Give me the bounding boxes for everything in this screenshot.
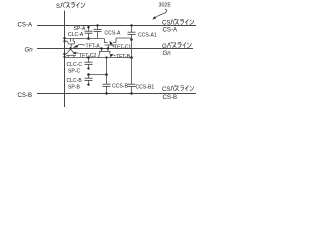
svg-text:SP-B: SP-B [68, 84, 80, 90]
wire vertical link A (CS coupling chain) [131, 40, 133, 58]
label CCS-B1 [136, 85, 155, 91]
capacitor CCS-A1 [128, 24, 136, 39]
wire SP-A node [65, 38, 105, 40]
wire vertical to CCS-B [106, 58, 108, 85]
junction chain / TFT-B drain wire [130, 56, 133, 59]
label TFT-B with leader [110, 54, 131, 60]
label CS bus line (right bottom) [162, 85, 194, 93]
label CS-A (left) [18, 22, 33, 29]
label CCS-A1 [138, 32, 157, 38]
transistor TFT-B (below gate line) [99, 49, 112, 58]
svg-text:CLC-B: CLC-B [67, 78, 83, 84]
capacitor CCS-B [103, 84, 111, 95]
svg-text:CS-B: CS-B [163, 94, 178, 101]
label Gn (left) [25, 47, 34, 54]
transistor TFT-A [65, 39, 75, 49]
label CLC-B [67, 78, 83, 84]
wire SP-C node (TFT-C2 to TFT-B) [65, 57, 132, 59]
capacitor CLC-A [85, 28, 93, 39]
G bus line Gn [37, 48, 193, 50]
label CS bus line (right top) [162, 19, 194, 27]
label S bus line [56, 2, 85, 10]
svg-text:CS-B: CS-B [18, 92, 33, 99]
junction CLC-B top [87, 73, 90, 76]
junction CLC-A on SP-A wire [87, 37, 90, 40]
junction TFT-C2 gate [69, 47, 71, 49]
label CS-B (right) [163, 94, 178, 101]
junction TFT-B gate 1 [100, 47, 102, 49]
svg-text:302E: 302E [159, 3, 172, 9]
label TFT-C1 with leader [109, 41, 131, 51]
capacitor CCS-A [94, 24, 102, 38]
node SP-A (dot) [87, 26, 89, 28]
junction CLC-B wire [105, 73, 108, 76]
transistor TFT-C1 [105, 38, 117, 49]
svg-text:CCS-A: CCS-A [105, 30, 121, 36]
capacitor CLC-B [85, 75, 93, 84]
label CLC-A [68, 32, 84, 38]
svg-text:CS-A: CS-A [18, 22, 33, 29]
label SP-A [74, 26, 86, 32]
transistor TFT-C2 (below gate line) [66, 49, 76, 58]
svg-text:S: S [56, 3, 60, 10]
label TFT-C2 with leader arrow [72, 52, 96, 59]
junction SP-B wire / vertical [105, 56, 107, 58]
wire vertical link B (to CCS-B1) [131, 58, 133, 85]
label CCS-B [112, 83, 128, 89]
node SP-B (dot) [87, 83, 89, 85]
svg-text:CCS-A1: CCS-A1 [138, 32, 157, 38]
capacitor CLC-C [85, 58, 93, 68]
S bus line (vertical) [64, 11, 66, 108]
label SP-C [68, 68, 80, 74]
label CS-A (right) [163, 27, 178, 34]
svg-text:CS: CS [162, 86, 170, 93]
svg-text:CCS-B1: CCS-B1 [136, 85, 155, 91]
junction S bus / SP-C wire [63, 53, 65, 58]
label Gn (right) [163, 50, 172, 57]
svg-text:SP-C: SP-C [68, 68, 80, 74]
svg-text:TFT-B: TFT-B [116, 54, 131, 60]
junction TFT-A source 2 on S bus [63, 40, 65, 42]
svg-text:TFT-C1: TFT-C1 [114, 45, 131, 51]
CS bus line (upper, CS-A) [37, 25, 196, 27]
svg-text:CLC-C: CLC-C [67, 62, 83, 68]
CS bus line (lower, CS-B) [37, 93, 196, 95]
svg-text:TFT-A: TFT-A [86, 43, 101, 49]
wire TFT-C1 to chain [116, 38, 132, 40]
svg-text:Gn: Gn [163, 50, 172, 57]
svg-text:G: G [162, 43, 167, 50]
leader arrow from 302E to CS bus line [152, 9, 166, 20]
svg-text:CCS-B: CCS-B [112, 83, 128, 89]
figure reference 302E [159, 3, 172, 9]
node SP-C (dot) [87, 67, 89, 69]
junction CLC-C on SP-C wire [87, 56, 90, 59]
label TFT-A with leader [73, 43, 101, 49]
svg-text:CS-A: CS-A [163, 27, 178, 34]
junction CCS-A1 / SP-A wire [130, 38, 133, 41]
junction TFT-A source on S bus [63, 37, 65, 39]
junction TFT-C1 gate [107, 47, 109, 49]
label CCS-A [105, 30, 121, 36]
svg-text:CLC-A: CLC-A [68, 32, 84, 38]
label G bus line (right) [162, 42, 191, 50]
label SP-B [68, 84, 80, 90]
wire CLC-B to SP-B net [89, 74, 107, 76]
capacitor CCS-B1 [128, 84, 136, 95]
label CS-B (left) [18, 92, 33, 99]
svg-text:Gn: Gn [25, 47, 34, 54]
label CLC-C [67, 62, 83, 68]
